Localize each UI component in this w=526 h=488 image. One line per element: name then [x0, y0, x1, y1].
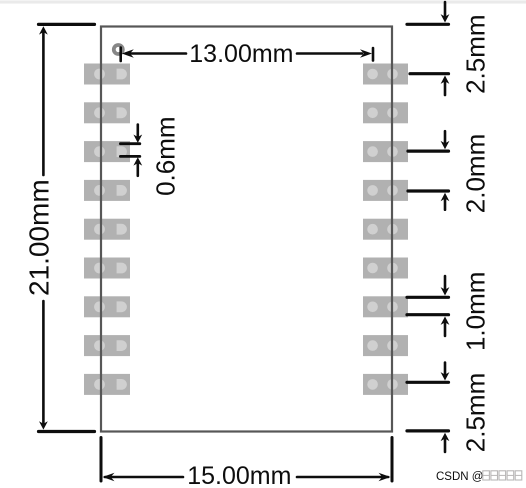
pad R2 (right column, inner hole + castellated hole) [363, 102, 408, 123]
pad L7 (left column, castellated hole + inner D hole) [84, 296, 130, 317]
dim 2.0mm lower arrowhead (up) [441, 193, 450, 201]
dim 13.00mm left arrowhead [122, 49, 134, 58]
dim 2.5mm(bottom) upper tick [407, 381, 449, 384]
svg-text:CSDN @: CSDN @ [436, 471, 483, 483]
dim 1.0mm lower arrowhead (up) [441, 317, 450, 325]
pad R7 (right column, inner hole + castellated hole) [363, 296, 408, 317]
dim 2.0mm lower arrow line [444, 200, 447, 210]
dim 2.5mm(top) lower arrow line [444, 82, 447, 95]
dim 21.00mm bottom tick [39, 430, 95, 433]
svg-text:0.6mm: 0.6mm [151, 116, 181, 195]
pad R5 (right column, inner hole + castellated hole) [363, 219, 408, 240]
dim 15.00mm line right segment [297, 476, 388, 479]
pad R9 (right column, inner hole + castellated hole) [363, 374, 408, 395]
svg-text:2.5mm: 2.5mm [461, 373, 491, 452]
dim 1.0mm upper tick [407, 296, 449, 299]
dim 0.6mm upper arrowhead (down) [133, 135, 142, 143]
dim 2.5mm(bottom) upper arrowhead (down) [441, 372, 450, 380]
dim 0.6mm lower arrowhead (up) [133, 157, 142, 165]
dim 0.6mm upper arrow line [137, 125, 140, 136]
top page border band [0, 0, 526, 4]
svg-text:2.5mm: 2.5mm [461, 14, 491, 93]
dim 2.0mm lower tick [408, 189, 449, 192]
dim 13.00mm line left segment [131, 52, 186, 55]
dim 15.00mm right extension line [391, 438, 394, 482]
dim 2.5mm(bottom) upper arrow line [444, 363, 447, 375]
dim 15.00mm left extension line [100, 438, 103, 482]
dim 1.0mm lower arrow line [444, 323, 447, 336]
dim 1.0mm lower tick [407, 313, 449, 316]
dim 2.5mm(top) lower tick [410, 72, 449, 75]
pad L5 (left column, castellated hole + inner D hole) [84, 219, 130, 240]
pad L8 (left column, castellated hole + inner D hole) [84, 335, 130, 356]
pad L2 (left column, castellated hole + inner D hole) [84, 102, 130, 123]
svg-text:15.00mm: 15.00mm [187, 462, 291, 488]
pad L9 (left column, castellated hole + inner D hole) [84, 374, 130, 395]
dim 0.6mm upper tick [120, 142, 139, 145]
pad R8 (right column, inner hole + castellated hole) [363, 335, 408, 356]
dim 2.0mm upper tick [408, 150, 449, 153]
svg-text:13.00mm: 13.00mm [189, 40, 293, 68]
dim 13.00mm line right segment [297, 52, 362, 55]
dim 15.00mm line left segment [105, 476, 183, 479]
svg-text:1.0mm: 1.0mm [461, 272, 491, 351]
dim 1.0mm upper arrow line [444, 276, 447, 289]
dim 2.5mm(bottom) lower arrowhead (up) [441, 433, 450, 441]
pad R4 (right column, inner hole + castellated hole) [363, 180, 408, 201]
watermark CJK glyph blocks [483, 471, 522, 480]
pad L1 (left column, castellated hole + inner D hole) [84, 64, 130, 85]
dim 2.5mm(top) upper tick [407, 23, 449, 26]
pad R6 (right column, inner hole + castellated hole) [363, 258, 408, 279]
dim 13.00mm left extension tick [119, 48, 122, 62]
dim 1.0mm upper arrowhead (down) [441, 287, 450, 295]
svg-text:2.0mm: 2.0mm [461, 134, 491, 213]
dim 13.00mm right extension tick [372, 48, 375, 61]
dim 0.6mm lower arrow line [137, 164, 140, 176]
pad L4 (left column, castellated hole + inner D hole) [84, 180, 130, 201]
dim 2.5mm(top) upper arrowhead (down) [441, 14, 450, 22]
module body outline [101, 27, 392, 432]
dim 2.5mm(top) upper arrow line [444, 2, 447, 16]
dim 15.00mm right arrowhead [379, 473, 391, 482]
pin 1 marker ring [114, 45, 123, 54]
dim 15.00mm left arrowhead [103, 473, 115, 482]
dim 0.6mm lower tick [120, 155, 139, 158]
svg-text:21.00mm: 21.00mm [24, 179, 55, 296]
pad L3 (left column, castellated hole + inner D hole) [84, 141, 130, 162]
dim 2.0mm upper arrow line [444, 131, 447, 143]
dim 2.5mm(bottom) lower tick [407, 429, 449, 432]
dim 21.00mm up arrowhead [39, 26, 48, 34]
dim 13.00mm right arrowhead [360, 49, 372, 58]
dim 2.5mm(top) lower arrowhead (up) [441, 76, 450, 84]
pad R3 (right column, inner hole + castellated hole) [363, 141, 408, 162]
dim 21.00mm vertical line upper segment [42, 33, 45, 175]
pad L6 (left column, castellated hole + inner D hole) [84, 258, 130, 279]
pad R1 (right column, inner hole + castellated hole) [363, 64, 408, 85]
dim 21.00mm down arrowhead [39, 421, 48, 429]
dim 2.0mm upper arrowhead (down) [441, 141, 450, 149]
dim 2.5mm(bottom) lower arrow line [444, 440, 447, 452]
dim 21.00mm vertical line lower segment [42, 301, 45, 423]
dim 21.00mm top tick [39, 23, 95, 26]
